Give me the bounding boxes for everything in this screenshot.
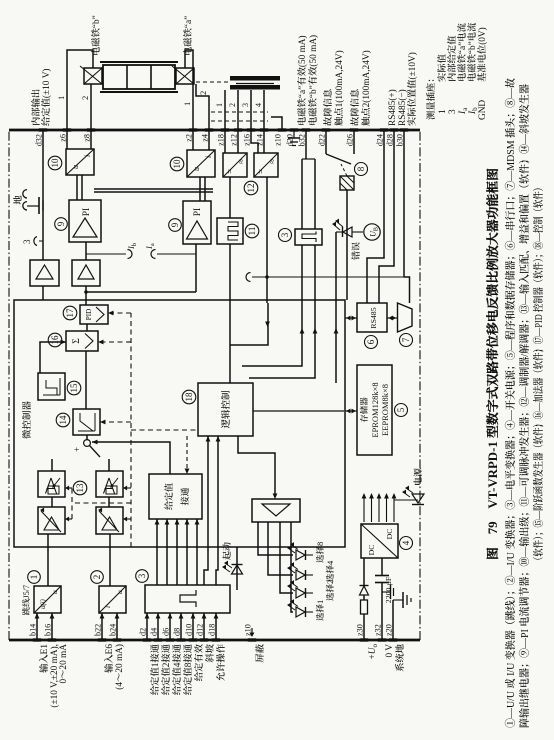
svg-text:斜坡: 斜坡 (205, 643, 216, 662)
setpoint switching box (149, 474, 202, 519)
wire amplifier b to PI b (85, 242, 87, 260)
svg-text:z16: z16 (243, 134, 252, 146)
step function generator 15 (38, 373, 65, 400)
wire relay coil to logic (346, 190, 348, 300)
terminal z16 (247, 128, 255, 131)
svg-text:PI: PI (193, 208, 203, 216)
svg-text:17: 17 (65, 308, 75, 318)
svg-text:1: 1 (29, 575, 39, 580)
ref 2 circle (91, 571, 104, 584)
select LED at x=128 (296, 607, 305, 617)
svg-text:z20: z20 (385, 624, 394, 636)
measuring point UB circle (364, 224, 380, 240)
svg-text:触点1(100mA,24V): 触点1(100mA,24V) (334, 50, 345, 126)
wire z6 to solenoid b pin 1 (67, 50, 93, 130)
svg-text:DC: DC (367, 545, 376, 556)
right card-edge connector bus (9, 129, 420, 132)
wire actual value to MDSM plug (404, 277, 410, 303)
svg-text:测量插座：: 测量插座： (426, 74, 437, 121)
terminal d4 (154, 638, 162, 641)
output stage 10 channel b (66, 149, 94, 175)
svg-text:故障信息: 故障信息 (350, 89, 361, 126)
svg-text:u: u (71, 165, 80, 169)
terminal z20 (389, 638, 397, 641)
select LED wires (258, 522, 293, 555)
svg-text:i: i (103, 606, 112, 608)
wire b30 actual position value (403, 130, 405, 277)
circuit board bottom edge (dash-dot) (419, 130, 421, 640)
MDSM plug 7 (398, 303, 413, 332)
svg-text:u: u (115, 590, 124, 594)
svg-text:d24: d24 (376, 134, 385, 146)
svg-text:1: 1 (182, 102, 192, 106)
svg-text:b24: b24 (109, 624, 118, 636)
level converter 3 (solenoid active outputs) (295, 229, 322, 245)
svg-text:z30: z30 (356, 624, 365, 636)
svg-text:RS485(−): RS485(−) (397, 89, 408, 126)
shield arrow z10 (251, 628, 253, 636)
svg-text:PID: PID (85, 309, 93, 321)
svg-text:z12: z12 (230, 134, 239, 146)
dashed control to ramp generator (100, 421, 131, 423)
select LED at x=165 (296, 570, 305, 580)
svg-text:+Uo: +Uo (368, 644, 379, 660)
svg-text:输入E6: 输入E6 (104, 644, 115, 673)
select LED at x=185 (296, 550, 305, 560)
svg-text:6: 6 (366, 339, 376, 344)
svg-text:2: 2 (92, 575, 102, 580)
svg-text:电磁铁“a”有效(50 mA): 电磁铁“a”有效(50 mA) (297, 35, 308, 126)
wire ramp enable to logic (204, 436, 208, 585)
svg-text:微控制器: 微控制器 (21, 401, 33, 440)
svg-text:z32: z32 (374, 624, 383, 636)
svg-text:z2: z2 (185, 134, 194, 142)
svg-text:3: 3 (280, 232, 290, 237)
ref 3 circle (mid) (279, 229, 292, 242)
ref 4 circle (400, 537, 413, 550)
wires input chain channel 2 (109, 534, 111, 586)
svg-text:障输出继电器；⑨—PI 电流调节器；⑩—输出级；⑪—可调脉冲: 障输出继电器；⑨—PI 电流调节器；⑩—输出级；⑪—可调脉冲发生器；⑫—调制器/… (518, 84, 531, 728)
terminal d24 (380, 128, 388, 131)
svg-text:18: 18 (184, 392, 194, 402)
svg-text:z14: z14 (256, 134, 265, 146)
ref 9 circle (channel a) (169, 219, 182, 232)
wire z32 0V (381, 583, 383, 640)
svg-text:z6: z6 (59, 134, 68, 142)
RS485 serial port 6 (357, 303, 387, 332)
converter 1 U/U or I/U (34, 586, 61, 613)
modulator/demodulator 12 lower (254, 153, 278, 177)
svg-text:13: 13 (75, 483, 85, 493)
svg-text:选择4: 选择4 (325, 560, 335, 582)
svg-text:Ib: Ib (126, 243, 138, 250)
svg-text:Σ: Σ (72, 338, 82, 344)
terminal d6 (166, 638, 174, 641)
svg-text:3: 3 (448, 109, 458, 114)
svg-text:d28: d28 (386, 134, 395, 146)
svg-text:10: 10 (50, 158, 60, 168)
ref 8 circle (355, 163, 368, 176)
measuring jack Ia (157, 253, 196, 255)
terminal b16 (48, 638, 56, 641)
wire z30 +Uo (363, 614, 365, 640)
svg-text:起动: 起动 (222, 542, 232, 560)
svg-text:0 V: 0 V (385, 644, 395, 658)
capacitor ground (382, 591, 390, 593)
gain block 13 channel 1 (38, 507, 65, 534)
ref 6 circle (365, 336, 378, 349)
svg-text:跳线J5/7: 跳线J5/7 (22, 585, 31, 615)
svg-text:d4: d4 (150, 628, 159, 636)
svg-text:DC: DC (385, 529, 394, 540)
svg-text:d18: d18 (208, 624, 217, 636)
svg-text:接通: 接通 (180, 487, 190, 505)
ref 1 circle (28, 571, 41, 584)
svg-text:7: 7 (401, 337, 411, 342)
series resistor (361, 600, 368, 614)
svg-text:9: 9 (170, 222, 180, 227)
ref 9 circle (channel b) (55, 218, 68, 231)
svg-text:Ia: Ia (144, 243, 156, 250)
wire step generator to adder (40, 342, 66, 373)
wire PID to amplifier b (85, 286, 87, 305)
svg-text:b30: b30 (396, 134, 405, 146)
solenoid a (176, 68, 194, 84)
ref 13 circle (73, 481, 87, 495)
svg-text:地: 地 (13, 195, 24, 205)
input matching block 13 channel 2 (96, 471, 123, 497)
svg-text:5: 5 (396, 407, 406, 412)
svg-text:d32: d32 (35, 134, 44, 146)
svg-text:3: 3 (241, 103, 250, 107)
terminal z10 (248, 638, 256, 641)
dashed control logic to setpoint switch (186, 436, 188, 472)
terminal d8 (177, 638, 185, 641)
terminal z10 (278, 128, 286, 131)
terminal d12 (200, 638, 208, 641)
input matching block 13 channel 1 (38, 471, 65, 497)
channel selector switch (84, 440, 91, 447)
svg-text:u(i): u(i) (40, 598, 47, 609)
PI current regulator channel a (183, 201, 211, 244)
svg-text:选择1: 选择1 (315, 600, 325, 621)
dashed control to adder (98, 341, 131, 343)
svg-text:RS485: RS485 (369, 307, 378, 328)
actual value wire from demodulator into microcontroller (266, 177, 268, 303)
terminal b14 (33, 638, 41, 641)
svg-text:1: 1 (438, 109, 448, 114)
wires b32 solenoid active (305, 130, 307, 159)
logic control box 18 (198, 383, 253, 436)
svg-text:逻辑控制: 逻辑控制 (220, 390, 232, 429)
output stage 10 channel a (187, 150, 215, 177)
svg-text:给定有效: 给定有效 (194, 643, 205, 681)
terminal d26 (350, 128, 358, 131)
ref 10 circle (channel b) (48, 156, 62, 170)
power rail arrows (363, 496, 365, 522)
ref 18 circle (182, 390, 196, 404)
measuring jack GND with ground (23, 202, 27, 210)
svg-text:2: 2 (198, 91, 208, 95)
error LED (335, 232, 337, 383)
svg-text:d20: d20 (286, 134, 295, 146)
svg-text:给定值2接通: 给定值2接通 (161, 643, 172, 695)
svg-text:1: 1 (56, 96, 66, 100)
terminal b24 (113, 638, 121, 641)
svg-text:UB: UB (369, 227, 380, 237)
select LED at x=147 (296, 588, 305, 598)
svg-text:d26: d26 (346, 134, 355, 146)
measuring jack 3 (34, 237, 37, 246)
cable shield (dashed) (211, 120, 268, 122)
svg-text:错误: 错误 (351, 242, 361, 260)
adder 16 (66, 331, 98, 351)
svg-text:内部输出: 内部输出 (31, 89, 42, 126)
wire logic to LED driver (238, 436, 275, 497)
svg-text:触点2(100mA,24V): 触点2(100mA,24V) (361, 50, 372, 126)
ref 12 circle (244, 181, 258, 195)
wire solenoid-active a inside microcontroller (242, 303, 302, 366)
reverse protection diode (360, 586, 369, 595)
wire z8 to solenoid b pin 2 (90, 84, 92, 130)
wire z10 shield (271, 117, 282, 130)
svg-text:故障信息: 故障信息 (323, 89, 334, 126)
svg-text:d6: d6 (162, 628, 171, 636)
RS485 bus arrows (345, 317, 357, 319)
svg-text:电磁铁“b”电流: 电磁铁“b”电流 (467, 22, 478, 82)
svg-text:d22: d22 (318, 134, 327, 146)
wire d24 RS485+ (367, 130, 384, 303)
terminal d18 (212, 638, 220, 641)
svg-text:实际值: 实际值 (437, 53, 448, 82)
PI current regulator channel b (69, 200, 101, 242)
PID controller 17 (80, 305, 108, 324)
LED driver box (252, 499, 300, 522)
terminal z4 (205, 128, 213, 131)
svg-text:输入E1: 输入E1 (39, 644, 50, 673)
power LED (394, 499, 418, 501)
ref 16 circle (48, 333, 62, 347)
terminal z18 (221, 128, 229, 131)
svg-text:b14: b14 (29, 624, 38, 636)
wire setpoint switch to selector (92, 442, 170, 474)
left card-edge connector bus (9, 639, 420, 642)
terminal z32 (378, 638, 386, 641)
ref 11 circle (245, 224, 259, 238)
fault relay contact wires d22 d26 (325, 130, 327, 154)
microcontroller outline box (14, 300, 345, 547)
svg-text:图 79 VT-VRPD-1 型数字式双路带位移电反馈比例放: 图 79 VT-VRPD-1 型数字式双路带位移电反馈比例放大器功能框图 (485, 168, 500, 560)
svg-text:EPROM128k×8: EPROM128k×8 (370, 382, 380, 437)
wire d28 RS485- (379, 130, 394, 303)
svg-text:u: u (50, 590, 59, 594)
circuit board top edge (dash-dot) (8, 130, 10, 640)
svg-text:11: 11 (247, 227, 257, 236)
memory bus arrows (345, 410, 357, 412)
svg-text:RS485(+): RS485(+) (387, 89, 398, 126)
level converter 3 digital inputs (145, 585, 230, 613)
terminal d20 ground (293, 130, 295, 138)
svg-text:≈: ≈ (236, 159, 246, 164)
terminal d20 (290, 128, 298, 131)
svg-text:基准电位(0V): 基准电位(0V) (477, 27, 488, 82)
svg-text:3: 3 (22, 239, 32, 244)
wire logic to memory bus (253, 410, 344, 412)
terminal b32 (302, 128, 310, 131)
wires level converter to setpoint switch (156, 519, 158, 585)
measuring jack Ib (86, 253, 126, 255)
wire ramp generator to adder (85, 351, 87, 409)
svg-text:1: 1 (215, 103, 224, 107)
switch-mode power supply 4 DC/DC (361, 524, 398, 558)
svg-text:=: = (225, 169, 235, 174)
svg-text:4: 4 (401, 540, 411, 545)
svg-text:实际位置值(±10V): 实际位置值(±10V) (407, 52, 418, 126)
svg-text:12: 12 (246, 184, 256, 193)
svg-text:给定值(±10 V): 给定值(±10 V) (41, 68, 52, 126)
svg-text:系统地: 系统地 (395, 643, 406, 672)
terminal z2 (189, 128, 197, 131)
buffer capacitor 2200uF (375, 582, 389, 584)
svg-text:4: 4 (254, 103, 263, 107)
wire selector to ramp generator (86, 435, 88, 440)
wires demodulators to LVDT terminals (224, 130, 226, 153)
svg-text:（软件）；⑮—阶跃函数发生器（软件）；⑯—加法器（软件）；⑰: （软件）；⑮—阶跃函数发生器（软件）；⑯—加法器（软件）；⑰—PID 控制器（软… (532, 183, 545, 565)
measuring jack 1 line to b30 (252, 276, 404, 278)
svg-text:电源: 电源 (413, 468, 423, 486)
wire z2 to solenoid a pin 1 (185, 50, 193, 130)
svg-text:给定值1接通: 给定值1接通 (150, 643, 161, 695)
terminal b30 (400, 128, 408, 131)
svg-text:z10: z10 (274, 134, 283, 146)
amplifier for internal command output (30, 260, 59, 286)
svg-text:i: i (83, 155, 92, 157)
LVDT position transducer (230, 76, 280, 81)
modulator/demodulator 12 upper (223, 153, 247, 177)
wire internal command d32 (42, 286, 44, 300)
svg-text:选择8: 选择8 (315, 542, 325, 563)
svg-text:PI: PI (82, 208, 92, 216)
ref 5 circle (395, 404, 408, 417)
svg-text:给定值8接通: 给定值8接通 (183, 643, 194, 695)
terminal d10 (189, 638, 197, 641)
wires PI b to output stage b (76, 175, 78, 200)
wire logic to pulse generator (229, 244, 231, 383)
wire z4 to solenoid a pin 2 (196, 84, 209, 130)
LVDT wires 1-4 to z18 z12 z16 z14 (224, 90, 226, 130)
solenoid b (84, 68, 102, 84)
svg-text:给定值4接通: 给定值4接通 (172, 643, 183, 695)
svg-text:(4～20 mA): (4～20 mA) (114, 644, 125, 690)
terminal d22 (322, 128, 330, 131)
ref 7 circle (400, 334, 413, 347)
ref 3 circle (136, 570, 149, 583)
dashed control to PID (108, 312, 131, 314)
svg-text:8: 8 (356, 166, 366, 171)
svg-text:=: = (256, 169, 266, 174)
gain block 13 channel 2 (96, 507, 123, 534)
wire pulse generator to demodulator (229, 177, 231, 218)
wire z20 system ground (392, 600, 394, 640)
terminal d2 (143, 638, 151, 641)
svg-text:+: + (72, 447, 82, 452)
svg-text:u: u (192, 167, 201, 171)
amplifier before PI b (72, 260, 100, 286)
dashed control spine from logic (130, 313, 132, 547)
ref 15 circle (67, 381, 81, 395)
svg-text:d2: d2 (139, 628, 148, 636)
converter 2 I/U (99, 586, 126, 613)
svg-text:允许操作: 允许操作 (216, 643, 227, 681)
svg-text:b22: b22 (94, 624, 103, 636)
svg-text:16: 16 (50, 335, 60, 345)
pulse generator 11 (217, 218, 243, 244)
svg-text:①—U/U 或 I/U 变换器（跳线）；②—I/U 变换器；: ①—U/U 或 I/U 变换器（跳线）；②—I/U 变换器；③—电平变换器；④—… (504, 78, 517, 728)
terminal d32 (39, 128, 47, 131)
terminal z8 (87, 128, 95, 131)
wire solenoid-active b inside microcontroller (249, 303, 315, 378)
mechanical link valve to LVDT (dashed) (196, 81, 229, 83)
relay contact (326, 154, 351, 164)
proportional valve body (103, 65, 175, 89)
wires input chain channel 1 (47, 534, 49, 586)
terminal z6 (63, 128, 71, 131)
start LED (236, 547, 238, 590)
svg-text:电磁铁“b”有效(50 mA): 电磁铁“b”有效(50 mA) (308, 35, 319, 126)
memory box 5 EPROM/EEPROM (357, 365, 392, 455)
svg-text:2: 2 (228, 103, 237, 107)
dashed control to gain/offset blocks (72, 502, 131, 504)
svg-text:i: i (204, 156, 213, 158)
svg-text:0～20 mA: 0～20 mA (59, 644, 69, 684)
ref 14 circle (56, 413, 70, 427)
svg-text:2200 µF: 2200 µF (384, 576, 393, 603)
ramp generator 14 (73, 409, 100, 435)
current sense pair wires (94, 191, 213, 193)
svg-text:GND: GND (478, 100, 488, 120)
svg-text:10: 10 (172, 159, 182, 169)
svg-text:9: 9 (56, 221, 66, 226)
terminal b22 (98, 638, 106, 641)
terminal z30 (360, 638, 368, 641)
wire adder to PID (86, 324, 88, 331)
svg-text:内部给定值: 内部给定值 (447, 35, 458, 82)
svg-text:z18: z18 (217, 134, 226, 146)
svg-text:d12: d12 (196, 624, 205, 636)
svg-text:d8: d8 (173, 628, 182, 636)
wire PID branch to PI a (86, 291, 196, 293)
wire enable operation to logic (216, 436, 218, 585)
svg-text:存储器: 存储器 (359, 397, 369, 423)
wires PI a to output stage a (199, 177, 201, 201)
svg-text:15: 15 (69, 383, 79, 393)
ref 10 circle (channel a) (170, 157, 184, 171)
svg-text:b16: b16 (44, 624, 53, 636)
terminal z14 (260, 128, 268, 131)
svg-text:14: 14 (58, 415, 68, 425)
svg-text:d10: d10 (185, 624, 194, 636)
svg-text:EEPROM8k×8: EEPROM8k×8 (380, 384, 390, 436)
svg-text:b32: b32 (298, 134, 307, 146)
svg-text:≈: ≈ (267, 159, 277, 164)
relay coil 8 (340, 176, 354, 190)
terminal d28 (390, 128, 398, 131)
svg-text:3: 3 (137, 573, 147, 578)
svg-text:屏蔽: 屏蔽 (255, 643, 266, 662)
svg-text:电磁铁“a”电流: 电磁铁“a”电流 (457, 22, 468, 82)
svg-text:给定值: 给定值 (164, 483, 174, 510)
svg-text:2: 2 (80, 96, 90, 100)
